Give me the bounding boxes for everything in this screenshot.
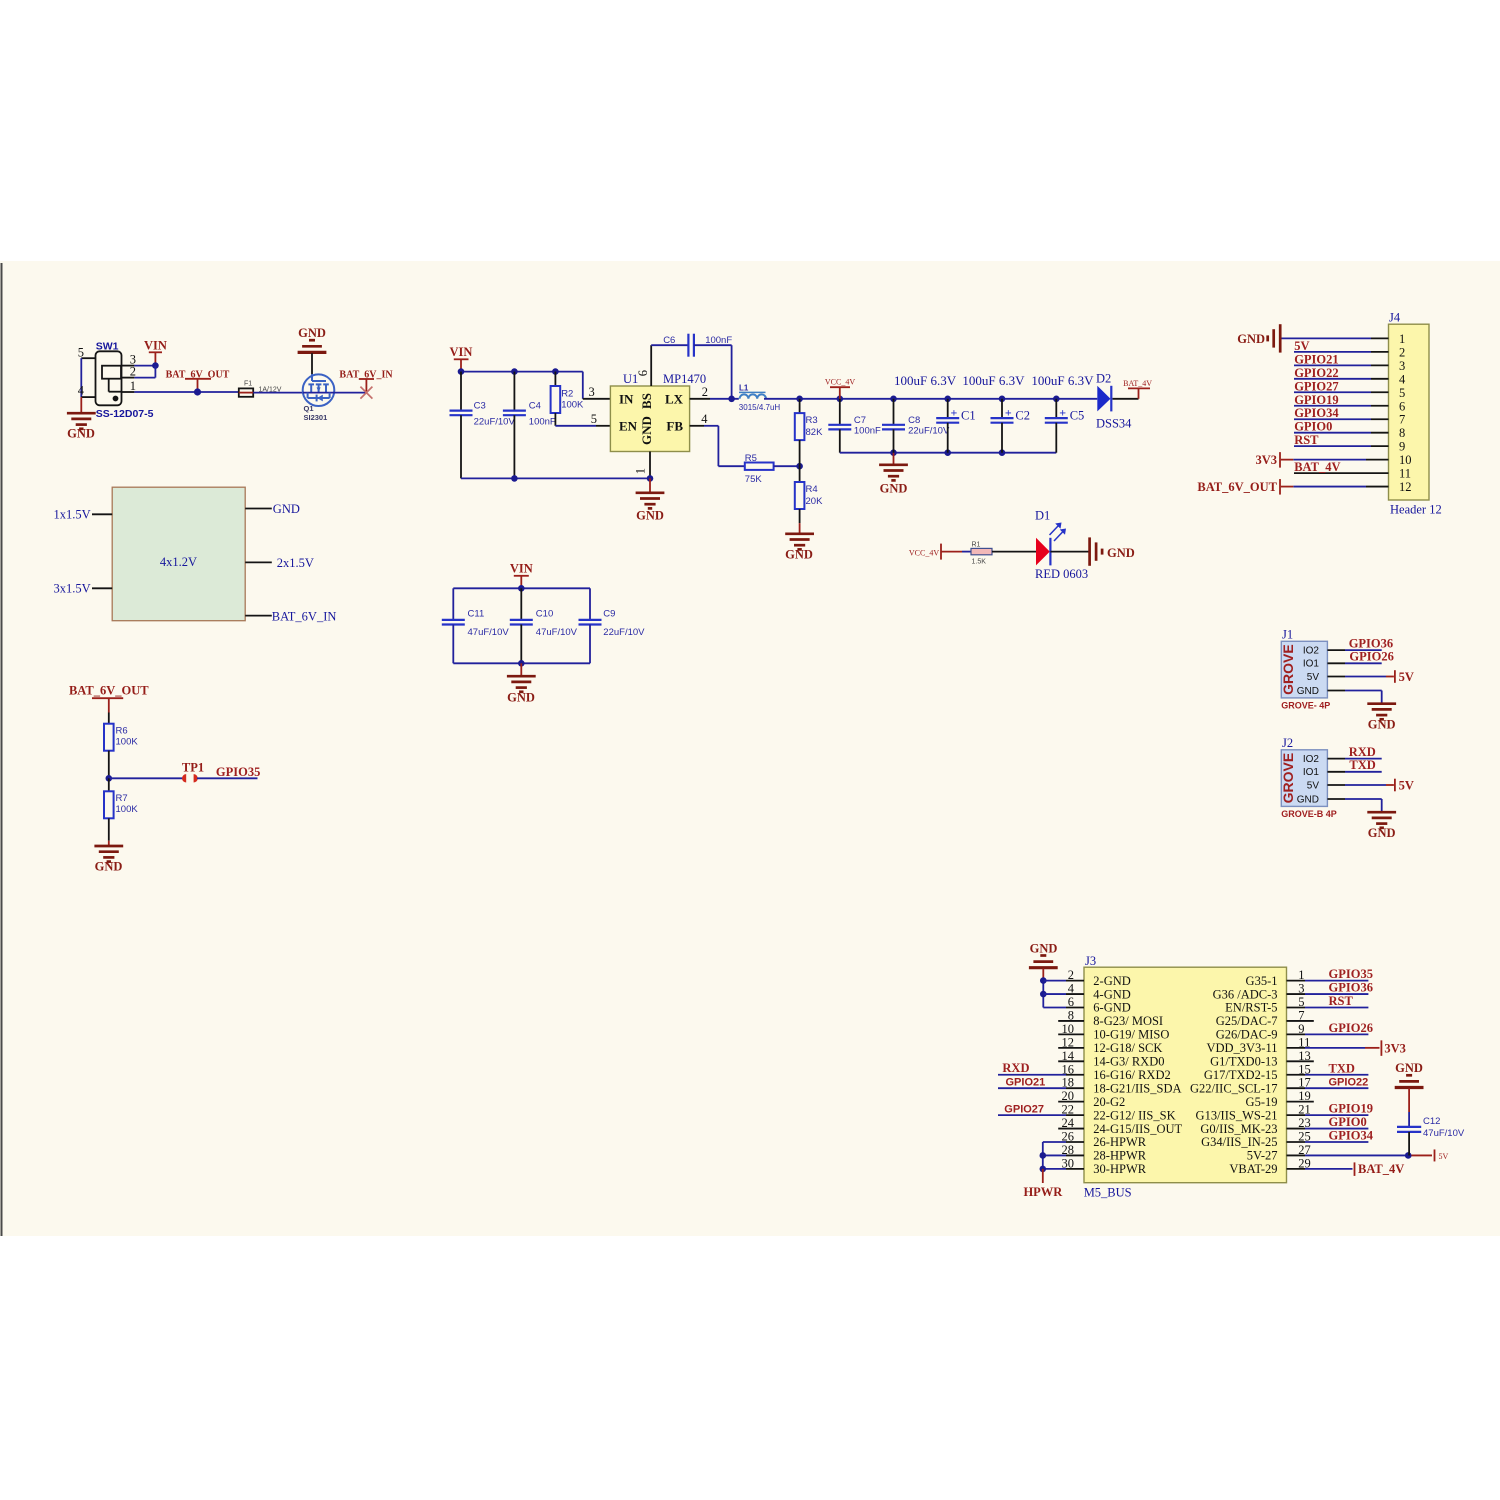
svg-text:100K: 100K <box>561 400 584 411</box>
svg-text:2x1.5V: 2x1.5V <box>277 556 314 570</box>
svg-text:5V: 5V <box>1439 1152 1449 1161</box>
svg-text:HPWR: HPWR <box>1023 1185 1063 1199</box>
svg-text:R5: R5 <box>745 453 757 464</box>
svg-text:5V: 5V <box>1307 672 1320 683</box>
svg-text:C3: C3 <box>474 401 486 412</box>
svg-text:2: 2 <box>1399 345 1405 359</box>
svg-text:GPIO36: GPIO36 <box>1349 636 1393 650</box>
svg-text:J1: J1 <box>1282 627 1293 641</box>
svg-text:100nF: 100nF <box>854 426 881 437</box>
svg-text:20-G2: 20-G2 <box>1093 1095 1125 1109</box>
svg-text:Header 12: Header 12 <box>1390 503 1442 517</box>
svg-text:G36 /ADC-3: G36 /ADC-3 <box>1213 987 1278 1001</box>
svg-text:EN/RST-5: EN/RST-5 <box>1225 1001 1277 1015</box>
svg-text:3: 3 <box>1399 359 1405 373</box>
svg-text:+: + <box>951 406 958 420</box>
svg-text:G26/DAC-9: G26/DAC-9 <box>1216 1028 1278 1042</box>
svg-text:G34/IIS_IN-25: G34/IIS_IN-25 <box>1201 1135 1277 1149</box>
svg-text:DSS34: DSS34 <box>1096 417 1132 431</box>
svg-text:26-HPWR: 26-HPWR <box>1093 1135 1146 1149</box>
svg-text:GND: GND <box>785 548 813 562</box>
svg-text:18-G21/IIS_SDA: 18-G21/IIS_SDA <box>1093 1081 1181 1095</box>
svg-text:VIN: VIN <box>510 562 533 576</box>
svg-text:1.5K: 1.5K <box>972 559 987 566</box>
svg-text:R2: R2 <box>561 389 573 400</box>
svg-text:G1/TXD0-13: G1/TXD0-13 <box>1210 1055 1277 1069</box>
svg-text:EN: EN <box>619 419 638 434</box>
svg-text:G5-19: G5-19 <box>1246 1095 1278 1109</box>
svg-text:GPIO34: GPIO34 <box>1294 406 1339 420</box>
svg-text:3x1.5V: 3x1.5V <box>53 582 90 596</box>
svg-text:GPIO27: GPIO27 <box>1294 379 1338 393</box>
svg-text:BAT_6V_OUT: BAT_6V_OUT <box>69 684 149 698</box>
svg-text:6: 6 <box>636 370 650 376</box>
svg-text:GND: GND <box>1368 826 1396 840</box>
svg-text:4: 4 <box>78 384 85 398</box>
svg-text:100uF 6.3V: 100uF 6.3V <box>894 373 957 388</box>
svg-text:G35-1: G35-1 <box>1246 974 1278 988</box>
svg-text:GPIO22: GPIO22 <box>1294 366 1338 380</box>
svg-text:30-HPWR: 30-HPWR <box>1093 1162 1146 1176</box>
svg-text:+: + <box>1005 406 1012 420</box>
svg-text:J4: J4 <box>1389 311 1401 325</box>
svg-text:TXD: TXD <box>1349 758 1375 772</box>
svg-text:IO2: IO2 <box>1303 645 1320 656</box>
svg-text:GPIO21: GPIO21 <box>1294 352 1338 366</box>
svg-text:GROVE- 4P: GROVE- 4P <box>1281 700 1330 710</box>
svg-text:1: 1 <box>634 468 648 474</box>
svg-text:7: 7 <box>1399 413 1405 427</box>
svg-text:100nF: 100nF <box>529 417 556 428</box>
svg-text:GPIO19: GPIO19 <box>1329 1102 1373 1116</box>
svg-text:C10: C10 <box>536 609 553 620</box>
svg-text:47uF/10V: 47uF/10V <box>536 627 578 638</box>
svg-text:5V-27: 5V-27 <box>1247 1149 1278 1163</box>
svg-text:VCC_4V: VCC_4V <box>825 378 855 387</box>
svg-text:GROVE: GROVE <box>1280 644 1296 695</box>
svg-text:5: 5 <box>591 412 597 426</box>
svg-text:GPIO22: GPIO22 <box>1329 1077 1369 1089</box>
svg-text:G25/DAC-7: G25/DAC-7 <box>1216 1014 1278 1028</box>
svg-text:100uF 6.3V: 100uF 6.3V <box>962 373 1025 388</box>
svg-text:R7: R7 <box>116 793 128 804</box>
svg-text:GND: GND <box>1395 1061 1423 1075</box>
svg-text:GROVE-B 4P: GROVE-B 4P <box>1281 809 1337 819</box>
svg-text:5V: 5V <box>1307 780 1320 791</box>
svg-text:GND: GND <box>1030 942 1058 956</box>
svg-text:GND: GND <box>95 860 123 874</box>
svg-text:3015/4.7uH: 3015/4.7uH <box>739 403 781 412</box>
svg-text:C7: C7 <box>854 415 866 426</box>
svg-text:BAT_4V: BAT_4V <box>1294 460 1340 474</box>
svg-text:C11: C11 <box>468 609 485 620</box>
svg-text:GND: GND <box>1297 686 1319 697</box>
svg-text:IO2: IO2 <box>1303 754 1320 765</box>
svg-text:VIN: VIN <box>450 345 473 359</box>
svg-text:IN: IN <box>619 392 634 407</box>
svg-text:GND: GND <box>1297 794 1319 805</box>
svg-text:R1: R1 <box>972 542 981 549</box>
svg-text:12-G18/ SCK: 12-G18/ SCK <box>1093 1041 1162 1055</box>
svg-text:3: 3 <box>589 385 595 399</box>
svg-text:IO1: IO1 <box>1303 767 1320 778</box>
svg-text:GPIO26: GPIO26 <box>1349 650 1393 664</box>
svg-text:6-GND: 6-GND <box>1093 1001 1131 1015</box>
svg-text:11: 11 <box>1399 467 1411 481</box>
svg-text:TXD: TXD <box>1329 1061 1355 1075</box>
svg-text:28-HPWR: 28-HPWR <box>1093 1149 1146 1163</box>
svg-text:VBAT-29: VBAT-29 <box>1229 1162 1277 1176</box>
svg-text:G0/IIS_MK-23: G0/IIS_MK-23 <box>1200 1122 1277 1136</box>
svg-text:D1: D1 <box>1035 509 1050 523</box>
svg-text:14-G3/ RXD0: 14-G3/ RXD0 <box>1093 1055 1164 1069</box>
svg-text:GND: GND <box>298 326 326 340</box>
svg-text:FB: FB <box>666 419 683 434</box>
svg-text:G22/IIC_SCL-17: G22/IIC_SCL-17 <box>1190 1081 1278 1095</box>
svg-text:+: + <box>1059 406 1066 420</box>
svg-text:82K: 82K <box>806 427 824 438</box>
svg-text:BAT_6V_IN: BAT_6V_IN <box>272 610 337 624</box>
svg-text:GPIO26: GPIO26 <box>1329 1021 1373 1035</box>
svg-text:RED 0603: RED 0603 <box>1035 567 1088 581</box>
svg-text:G17/TXD2-15: G17/TXD2-15 <box>1204 1068 1278 1082</box>
svg-text:MP1470: MP1470 <box>663 372 706 386</box>
svg-text:GPIO19: GPIO19 <box>1294 393 1338 407</box>
svg-text:10: 10 <box>1399 453 1412 467</box>
svg-text:2-GND: 2-GND <box>1093 974 1131 988</box>
svg-text:D2: D2 <box>1096 372 1111 386</box>
svg-text:R6: R6 <box>116 726 128 737</box>
svg-text:VCC_4V: VCC_4V <box>909 548 939 557</box>
svg-text:J3: J3 <box>1085 954 1096 968</box>
svg-text:GPIO27: GPIO27 <box>1004 1104 1044 1116</box>
svg-text:4: 4 <box>1399 372 1406 386</box>
svg-text:LX: LX <box>665 392 684 407</box>
svg-text:5: 5 <box>1399 386 1405 400</box>
svg-text:BAT_4V: BAT_4V <box>1123 379 1152 388</box>
svg-text:12: 12 <box>1399 480 1412 494</box>
svg-text:1x1.5V: 1x1.5V <box>53 508 90 522</box>
svg-text:2: 2 <box>130 365 136 379</box>
svg-text:75K: 75K <box>745 474 763 485</box>
svg-text:C2: C2 <box>1015 409 1030 423</box>
svg-text:GROVE: GROVE <box>1280 753 1296 804</box>
svg-text:J2: J2 <box>1282 736 1293 750</box>
svg-text:GPIO34: GPIO34 <box>1329 1129 1374 1143</box>
svg-text:RST: RST <box>1329 994 1354 1008</box>
svg-text:C12: C12 <box>1423 1116 1440 1127</box>
svg-text:GND: GND <box>636 509 664 523</box>
svg-text:GPIO0: GPIO0 <box>1294 420 1332 434</box>
svg-text:C5: C5 <box>1070 409 1085 423</box>
svg-text:IO1: IO1 <box>1303 659 1320 670</box>
svg-text:C4: C4 <box>529 401 541 412</box>
svg-text:GND: GND <box>1237 332 1265 346</box>
svg-text:F1: F1 <box>244 381 252 388</box>
svg-text:22-G12/ IIS_SK: 22-G12/ IIS_SK <box>1093 1108 1175 1122</box>
svg-text:22uF/10V: 22uF/10V <box>474 417 516 428</box>
svg-text:47uF/10V: 47uF/10V <box>468 627 510 638</box>
svg-text:5V: 5V <box>1294 339 1309 353</box>
svg-text:RXD: RXD <box>1349 745 1376 759</box>
svg-text:C6: C6 <box>663 335 675 346</box>
svg-text:5V: 5V <box>1399 670 1414 684</box>
svg-text:TP1: TP1 <box>182 761 204 775</box>
svg-text:GPIO21: GPIO21 <box>1006 1077 1046 1089</box>
svg-text:100uF 6.3V: 100uF 6.3V <box>1031 373 1094 388</box>
svg-text:6: 6 <box>1399 399 1405 413</box>
svg-text:L1: L1 <box>739 384 749 393</box>
svg-text:RST: RST <box>1294 433 1319 447</box>
svg-text:GPIO36: GPIO36 <box>1329 981 1373 995</box>
svg-text:4x1.2V: 4x1.2V <box>160 555 197 569</box>
svg-text:GND: GND <box>1107 546 1135 560</box>
svg-text:Q1: Q1 <box>304 404 314 413</box>
svg-text:47uF/10V: 47uF/10V <box>1423 1128 1465 1139</box>
svg-text:GND: GND <box>1368 718 1396 732</box>
svg-text:BAT_6V_OUT: BAT_6V_OUT <box>1197 480 1277 494</box>
svg-text:22uF/10V: 22uF/10V <box>908 426 950 437</box>
svg-text:22uF/10V: 22uF/10V <box>603 627 645 638</box>
svg-text:M5_BUS: M5_BUS <box>1084 1186 1132 1200</box>
svg-text:R3: R3 <box>806 415 818 426</box>
svg-text:3V3: 3V3 <box>1384 1041 1406 1055</box>
svg-text:VDD_3V3-11: VDD_3V3-11 <box>1206 1041 1277 1055</box>
svg-text:GPIO0: GPIO0 <box>1329 1115 1367 1129</box>
svg-text:C8: C8 <box>908 415 920 426</box>
svg-text:GND: GND <box>67 427 95 441</box>
svg-text:100K: 100K <box>116 804 139 815</box>
svg-text:4: 4 <box>701 412 708 426</box>
svg-text:R4: R4 <box>806 484 818 495</box>
svg-text:BS: BS <box>639 393 654 409</box>
svg-text:SS-12D07-5: SS-12D07-5 <box>96 408 154 420</box>
svg-text:GND: GND <box>273 502 300 516</box>
svg-text:GND: GND <box>507 691 535 705</box>
svg-text:3V3: 3V3 <box>1255 453 1277 467</box>
svg-text:G13/IIS_WS-21: G13/IIS_WS-21 <box>1196 1108 1278 1122</box>
svg-text:16-G16/ RXD2: 16-G16/ RXD2 <box>1093 1068 1170 1082</box>
svg-text:GND: GND <box>639 416 654 445</box>
svg-text:VIN: VIN <box>144 339 167 353</box>
svg-text:20K: 20K <box>806 496 824 507</box>
svg-text:8-G23/ MOSI: 8-G23/ MOSI <box>1093 1014 1163 1028</box>
svg-text:2: 2 <box>702 385 708 399</box>
svg-text:9: 9 <box>1399 440 1405 454</box>
svg-text:10-G19/ MISO: 10-G19/ MISO <box>1093 1028 1169 1042</box>
svg-text:BAT_4V: BAT_4V <box>1358 1162 1404 1176</box>
svg-text:5V: 5V <box>1399 779 1414 793</box>
svg-text:GPIO35: GPIO35 <box>1329 967 1373 981</box>
svg-text:1: 1 <box>130 379 136 393</box>
svg-text:24-G15/IIS_OUT: 24-G15/IIS_OUT <box>1093 1122 1182 1136</box>
svg-text:8: 8 <box>1399 426 1405 440</box>
svg-text:100nF: 100nF <box>705 335 732 346</box>
svg-text:100K: 100K <box>116 737 139 748</box>
svg-text:4-GND: 4-GND <box>1093 987 1131 1001</box>
svg-text:C1: C1 <box>961 409 976 423</box>
svg-text:GPIO35: GPIO35 <box>216 765 260 779</box>
svg-text:GND: GND <box>880 482 908 496</box>
svg-text:RXD: RXD <box>1002 1061 1029 1075</box>
svg-text:1: 1 <box>1399 332 1405 346</box>
svg-text:SI2301: SI2301 <box>304 413 328 422</box>
svg-text:C9: C9 <box>603 609 615 620</box>
